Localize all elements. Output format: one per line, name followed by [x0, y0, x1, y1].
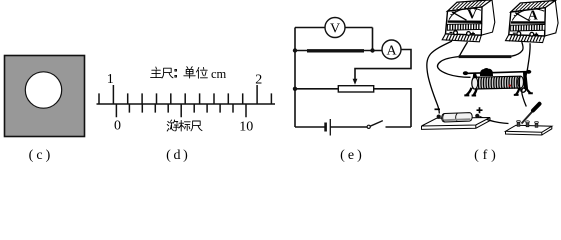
svg-text:(: ( — [29, 148, 34, 163]
svg-text:): ) — [183, 148, 188, 163]
svg-text:V: V — [467, 8, 477, 23]
svg-text:): ) — [491, 148, 496, 163]
svg-text:c: c — [36, 148, 42, 163]
svg-text:(: ( — [474, 148, 479, 163]
svg-text:1: 1 — [107, 72, 114, 87]
svg-text:(: ( — [166, 148, 171, 163]
svg-text:f: f — [483, 148, 488, 163]
svg-text:(: ( — [340, 148, 345, 163]
svg-text:cm: cm — [211, 67, 227, 81]
svg-text:2: 2 — [255, 73, 262, 88]
svg-text:V: V — [330, 22, 340, 37]
svg-text:A: A — [386, 44, 397, 59]
svg-text:): ) — [46, 148, 51, 163]
svg-text:0: 0 — [114, 119, 121, 134]
svg-text:): ) — [357, 148, 362, 163]
svg-text:e: e — [348, 148, 354, 163]
svg-text:d: d — [174, 148, 181, 163]
svg-text:10: 10 — [239, 120, 253, 135]
svg-text:A: A — [528, 8, 539, 23]
